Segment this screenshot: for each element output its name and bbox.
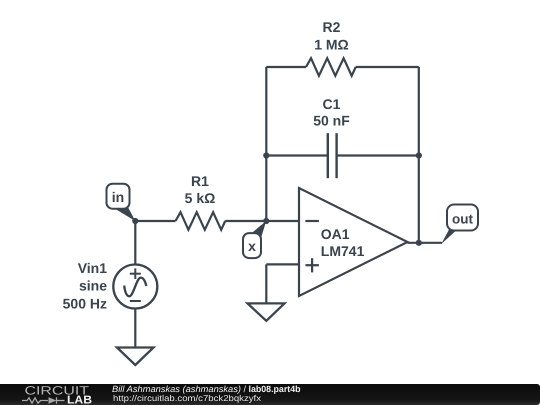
node dot: C1 right junction: [416, 152, 422, 158]
sine wave inside Vin1: [124, 278, 146, 297]
capacitor C1: [327, 133, 329, 178]
wire: R2 top left segment: [266, 66, 306, 68]
svg-text:LM741: LM741: [321, 243, 365, 259]
op-amp plus sign: [305, 258, 319, 272]
wire: in node down to Vin1 top: [134, 221, 136, 265]
wire: right vertical from R2 down to output node: [418, 67, 420, 243]
voltage source Vin1 circle: [113, 265, 157, 309]
flag tail for in label: [113, 204, 135, 222]
node label in: [107, 184, 130, 209]
svg-text:x: x: [248, 238, 256, 254]
resistor R1: [176, 212, 226, 230]
flag tail for x label: [250, 221, 266, 240]
flag tail for out label: [441, 230, 457, 245]
svg-text:R1: R1: [191, 173, 209, 189]
node dot: output junction: [416, 240, 422, 246]
wire: in node to R1: [135, 220, 175, 222]
svg-text:1 MΩ: 1 MΩ: [314, 37, 349, 53]
logo wire squiggle: [22, 397, 65, 403]
wire: R1 to op-amp minus input: [225, 220, 299, 222]
svg-text:5 kΩ: 5 kΩ: [185, 190, 216, 206]
ground under Vin1: [117, 348, 154, 366]
op-amp minus sign: [305, 220, 319, 222]
svg-text:sine: sine: [79, 278, 107, 294]
wire: left vertical from node x up to R2 top wire: [265, 67, 267, 221]
minus sign inside Vin1: [130, 300, 141, 302]
ground at op-amp plus input: [248, 303, 285, 320]
wire: C1 right segment: [337, 154, 419, 156]
node label x: [243, 233, 261, 258]
node dot: C1 left junction: [263, 152, 269, 158]
wire: plus input horizontal: [266, 263, 299, 265]
wire: Vin1 bottom to ground: [134, 309, 136, 348]
svg-text:C1: C1: [323, 96, 341, 112]
logo diode triangle: [49, 397, 57, 403]
svg-text:LAB: LAB: [67, 394, 92, 405]
node label out: [447, 205, 478, 231]
wire: C1 left segment: [266, 154, 328, 156]
svg-text:http://circuitlab.com/c7bck2bq: http://circuitlab.com/c7bck2bqkzyfx: [113, 393, 262, 403]
wire: output from op-amp tip: [408, 242, 443, 244]
svg-text:R2: R2: [323, 19, 341, 35]
svg-text:OA1: OA1: [321, 226, 350, 242]
op-amp U1 triangle: [299, 188, 408, 296]
svg-text:out: out: [452, 211, 473, 226]
svg-text:50 nF: 50 nF: [313, 113, 350, 129]
svg-text:in: in: [112, 189, 124, 205]
svg-text:500 Hz: 500 Hz: [63, 295, 107, 311]
node dot: x node: [263, 218, 269, 224]
wire: plus input vertical down to ground: [265, 264, 267, 303]
resistor R2: [306, 58, 356, 76]
node dot: in node: [132, 218, 138, 224]
wire: R2 top right segment: [356, 66, 419, 68]
plus sign inside Vin1: [124, 268, 146, 301]
svg-text:Vin1: Vin1: [78, 260, 108, 276]
